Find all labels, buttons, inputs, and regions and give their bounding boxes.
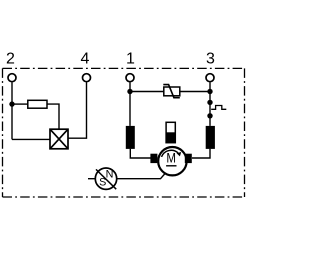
svg-text:S: S bbox=[99, 176, 106, 188]
terminal 2 bbox=[8, 74, 16, 82]
terminal 1 bbox=[126, 74, 134, 82]
svg-text:1: 1 bbox=[126, 50, 135, 67]
motor top brush (half filled) bbox=[166, 122, 175, 142]
terminal 4 bbox=[83, 74, 91, 82]
motor letter underline bbox=[166, 165, 176, 167]
brush / winding bar left (filled) bbox=[126, 126, 135, 149]
brush / winding bar right (filled) bbox=[206, 126, 215, 149]
wire: junction to resistor bbox=[12, 103, 28, 105]
motor left brush tab bbox=[150, 154, 157, 163]
wire: lamp right to terminal 4 bbox=[68, 82, 87, 138]
node: junction 3 lower bbox=[207, 113, 212, 118]
motor right brush tab bbox=[185, 154, 192, 163]
wire: terminal 3 down bbox=[209, 82, 211, 126]
node: junction 3 middle bbox=[207, 100, 212, 105]
svg-text:M: M bbox=[166, 149, 176, 165]
wire: terminal 1 down bbox=[129, 82, 131, 126]
resistor (series resistor) bbox=[28, 100, 47, 108]
pulse (interval) symbol bbox=[211, 106, 226, 110]
wire: left bar to motor left brush bbox=[130, 149, 151, 158]
wire: magnet sensor to motor bbox=[117, 172, 167, 179]
node: junction terminal 1 bbox=[127, 89, 132, 94]
node: junction 3 upper bbox=[207, 89, 212, 94]
svg-text:4: 4 bbox=[81, 50, 90, 67]
motor rotation arrow bbox=[162, 150, 179, 157]
enclosure boundary (dash-dot chain line) bbox=[3, 68, 245, 197]
wire: thermistor to terminal 3 branch bbox=[180, 91, 210, 93]
motor M1 body bbox=[158, 147, 186, 175]
svg-text:3: 3 bbox=[206, 50, 215, 67]
svg-text:2: 2 bbox=[6, 50, 15, 67]
terminal 3 bbox=[206, 74, 214, 82]
wire: terminal 2 down bbox=[11, 82, 13, 139]
magnet sensor (N/S circle) bbox=[95, 168, 116, 189]
wire: magnet sensor stub left bbox=[88, 178, 95, 180]
magnet sensor diagonal bbox=[96, 169, 116, 189]
svg-text:N: N bbox=[106, 169, 114, 181]
wire: bottom run terminal2 branch to lamp left bbox=[12, 138, 50, 140]
node: junction on terminal-2 branch bbox=[9, 101, 14, 106]
wire: junction 1 to thermistor bbox=[130, 91, 164, 93]
thermistor (box with bent diagonal) bbox=[163, 85, 180, 98]
indicator lamp (box with X) bbox=[50, 129, 68, 149]
wire: right bar to motor right brush bbox=[192, 149, 210, 158]
wire: resistor to lamp top bbox=[47, 104, 59, 129]
